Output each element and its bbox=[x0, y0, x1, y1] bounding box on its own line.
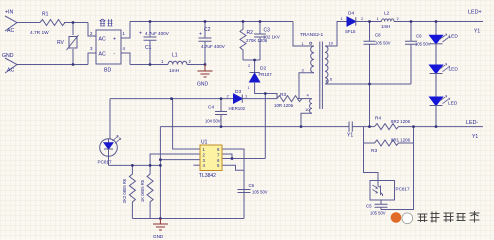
resistor R3b bbox=[364, 140, 414, 146]
U1 body bbox=[200, 145, 222, 171]
svg-text:105 50V: 105 50V bbox=[370, 211, 386, 216]
resistor R6 bbox=[129, 165, 135, 218]
svg-text:LED-: LED- bbox=[466, 120, 478, 126]
wire snubber bottom bbox=[243, 60, 260, 73]
U1 pin7 wire bbox=[222, 154, 232, 159]
svg-text:LED: LED bbox=[449, 34, 459, 40]
svg-text:105 50V: 105 50V bbox=[252, 190, 268, 195]
resistor R3 bbox=[277, 96, 302, 102]
junction (243,21.5) bbox=[242, 20, 245, 23]
svg-text:C6: C6 bbox=[249, 183, 255, 188]
junction (221,98.6) bbox=[220, 97, 223, 100]
U1 pin3 wire bbox=[160, 159, 200, 161]
junction (150,21.5) bbox=[149, 20, 152, 23]
wire bbox=[121, 22, 130, 65]
svg-text:R3: R3 bbox=[371, 148, 377, 154]
svg-text:R2: R2 bbox=[247, 30, 254, 36]
svg-text:Y1: Y1 bbox=[472, 134, 478, 140]
junction (369.5,21.5) bbox=[368, 20, 371, 23]
capacitor C4 bbox=[215, 99, 227, 127]
svg-text:-: - bbox=[114, 51, 116, 57]
svg-text:PC817: PC817 bbox=[98, 160, 112, 165]
svg-text:HER102: HER102 bbox=[229, 106, 246, 111]
svg-text:4.7uF 400V: 4.7uF 400V bbox=[145, 31, 170, 36]
svg-text:D4: D4 bbox=[348, 11, 354, 17]
svg-text:10R 1206: 10R 1206 bbox=[274, 103, 294, 108]
junction (205,64.5) bbox=[204, 63, 207, 66]
svg-text:AC: AC bbox=[7, 28, 14, 34]
junction (413.5,126.6) bbox=[412, 125, 415, 128]
port +IN bbox=[5, 16, 17, 31]
wire vcc vertical bbox=[264, 94, 266, 159]
bottom rail left bbox=[132, 218, 244, 220]
resistor R5 bbox=[147, 165, 153, 218]
gnd bus vertical bbox=[159, 127, 161, 219]
svg-text:RV: RV bbox=[57, 40, 65, 46]
transformer primary winding bbox=[293, 45, 314, 47]
svg-text:L2: L2 bbox=[384, 11, 390, 17]
svg-text:BD: BD bbox=[104, 68, 111, 74]
junction (132.4,165.4) bbox=[131, 164, 134, 167]
svg-text:8R2 1206: 8R2 1206 bbox=[391, 119, 411, 124]
optocoupler PC817 LED side bbox=[109, 99, 111, 139]
U1 pin5 wire bbox=[222, 165, 244, 170]
svg-text:PC817: PC817 bbox=[396, 187, 410, 192]
svg-text:105 50V: 105 50V bbox=[375, 41, 391, 46]
svg-text:LED+: LED+ bbox=[468, 10, 482, 16]
svg-text:4.7R 1W: 4.7R 1W bbox=[30, 30, 49, 36]
svg-text:D2: D2 bbox=[260, 66, 266, 72]
svg-text:1mH: 1mH bbox=[381, 24, 390, 29]
svg-text:AC: AC bbox=[99, 52, 106, 58]
junction (205,21.5) bbox=[204, 20, 207, 23]
polarity dots on transformer bbox=[310, 42, 312, 44]
junction (369.5,126.6) bbox=[368, 125, 371, 128]
transformer aux winding bbox=[310, 99, 312, 114]
svg-text:Y1: Y1 bbox=[474, 29, 480, 35]
svg-text:TL3842: TL3842 bbox=[199, 173, 216, 179]
junction (411,21.5) bbox=[410, 20, 413, 23]
resistor R2 bbox=[240, 22, 246, 61]
varistor RV bbox=[67, 23, 79, 65]
svg-text:LED: LED bbox=[448, 101, 458, 107]
svg-text:SFL5: SFL5 bbox=[345, 29, 356, 34]
svg-text:LED: LED bbox=[449, 67, 459, 73]
svg-text:TRANS2-1: TRANS2-1 bbox=[300, 32, 324, 38]
svg-text:+: + bbox=[139, 31, 142, 37]
secondary gnd rail bbox=[340, 83, 411, 85]
U1 pin1 wire bbox=[173, 99, 200, 149]
svg-text:+IN: +IN bbox=[5, 10, 13, 16]
wire bbox=[64, 23, 96, 37]
capacitor C5 bbox=[375, 204, 388, 209]
svg-text:+: + bbox=[113, 37, 116, 43]
svg-text:2K2 0805 R6: 2K2 0805 R6 bbox=[122, 178, 127, 203]
capacitor C3 bbox=[254, 22, 266, 61]
svg-text:R4: R4 bbox=[375, 116, 381, 122]
junction (254.6,60) bbox=[253, 59, 256, 62]
diode D3 HER102 bbox=[234, 94, 243, 103]
opto collector vertical bbox=[364, 127, 379, 181]
svg-text:+: + bbox=[199, 32, 202, 38]
port GND bbox=[5, 58, 17, 73]
transformer T1 core bbox=[320, 42, 323, 110]
svg-text:1: 1 bbox=[248, 86, 250, 90]
capacitor C7 under U1 bbox=[238, 190, 251, 193]
svg-text:R3: R3 bbox=[280, 92, 286, 98]
svg-text:R1: R1 bbox=[42, 12, 49, 18]
wire bbox=[17, 53, 96, 65]
svg-text:104 50V: 104 50V bbox=[205, 119, 221, 124]
junction (369.5,84) bbox=[368, 83, 371, 86]
svg-text:Y1: Y1 bbox=[347, 133, 353, 139]
junction (260,21.5) bbox=[259, 20, 262, 23]
svg-text:C6: C6 bbox=[416, 34, 422, 39]
junction (232,158.5) bbox=[231, 157, 234, 160]
secondary left vertical bbox=[369, 84, 371, 127]
opto rail bbox=[109, 164, 161, 166]
optocoupler PC817 transistor side bbox=[370, 181, 395, 201]
junction (160.4,165.4) bbox=[159, 164, 162, 167]
bridge rectifier BD bbox=[96, 30, 121, 64]
capacitor Y1 bbox=[160, 122, 374, 132]
svg-text:102 1KV: 102 1KV bbox=[263, 35, 280, 40]
U1 pin8 wire bbox=[222, 149, 244, 219]
svg-text:U1: U1 bbox=[201, 140, 208, 146]
watermark text 硬件笔记本 (drawn strokes) bbox=[418, 211, 480, 223]
top secondary rail bbox=[370, 21, 484, 23]
right vertical bbox=[381, 127, 414, 210]
svg-text:C2: C2 bbox=[204, 27, 211, 33]
inductor L1 bbox=[168, 61, 187, 64]
junction (265.3,93.5) bbox=[264, 92, 267, 95]
svg-text:AC: AC bbox=[7, 68, 14, 74]
svg-text:L1: L1 bbox=[172, 53, 178, 59]
diode D2 FR107 bbox=[250, 72, 260, 74]
junction (171.5,98.6) bbox=[170, 97, 173, 100]
svg-text:1mH: 1mH bbox=[169, 68, 180, 74]
bridge name 全桥 (CJK drawn as strokes) bbox=[100, 19, 113, 26]
LED D6 bbox=[430, 65, 443, 74]
wire bbox=[255, 82, 277, 99]
transformer secondary winding bbox=[325, 46, 328, 84]
junction (436,126.6) bbox=[435, 125, 438, 128]
svg-text:105 50V: 105 50V bbox=[415, 42, 431, 47]
wire bbox=[297, 98, 310, 100]
watermark icon bbox=[391, 212, 402, 223]
svg-text:C8: C8 bbox=[375, 33, 381, 38]
LED- rail bbox=[414, 126, 484, 128]
resistor R1 bbox=[40, 20, 65, 26]
svg-text:D3: D3 bbox=[235, 89, 241, 95]
junction (150,64.5) bbox=[149, 63, 152, 66]
junction (301,126.6) bbox=[300, 125, 303, 128]
svg-text:1K 0805 R5: 1K 0805 R5 bbox=[140, 179, 145, 202]
svg-text:GND: GND bbox=[153, 234, 164, 239]
svg-text:GND: GND bbox=[2, 53, 14, 59]
bottom rail bbox=[130, 64, 205, 66]
ground GND1 bbox=[198, 65, 213, 78]
junction (221,126.6) bbox=[220, 125, 223, 128]
capacitor C8 bbox=[364, 22, 376, 85]
wire feedback line bbox=[110, 98, 234, 100]
LED D5 bbox=[430, 35, 443, 44]
ground GND2 bbox=[153, 219, 168, 231]
junction (160.4,159.6) bbox=[159, 158, 162, 161]
inductor L2 bbox=[382, 19, 394, 22]
svg-text:10: 10 bbox=[329, 41, 334, 46]
diode D4 SFL5 bbox=[347, 17, 356, 26]
LED string wire bbox=[435, 22, 437, 127]
resistor R4 bbox=[375, 124, 414, 130]
svg-text:C1: C1 bbox=[145, 45, 152, 51]
svg-text:8R1 1206: 8R1 1206 bbox=[391, 138, 411, 143]
junction (436,21.5) bbox=[435, 20, 438, 23]
top rail bbox=[130, 22, 314, 47]
junction (160.4,218.5) bbox=[159, 217, 162, 220]
capacitor C1 bbox=[144, 22, 157, 65]
svg-text:GND: GND bbox=[197, 82, 209, 88]
svg-text:C4: C4 bbox=[208, 105, 214, 111]
svg-text:FR107: FR107 bbox=[259, 72, 273, 77]
U1 pin2 wire bbox=[150, 154, 200, 165]
svg-text:10: 10 bbox=[305, 107, 310, 112]
svg-text:4.7uF 400V: 4.7uF 400V bbox=[201, 44, 226, 49]
capacitor C6 bbox=[405, 22, 417, 85]
svg-text:AC: AC bbox=[99, 37, 106, 43]
junction (73,64.5) bbox=[72, 63, 75, 66]
junction (73,22.5) bbox=[72, 21, 75, 24]
U1 pin6 wire bbox=[222, 158, 265, 160]
svg-text:C3: C3 bbox=[264, 28, 271, 34]
wire bbox=[17, 22, 40, 24]
capacitor C2 bbox=[199, 22, 212, 65]
svg-text:2: 2 bbox=[248, 64, 250, 68]
bridge labels bbox=[99, 37, 117, 58]
junction (150.1,165.4) bbox=[149, 164, 152, 167]
U1 pin4 stub bbox=[194, 164, 201, 166]
LED D7 bbox=[430, 97, 443, 106]
svg-text:C5: C5 bbox=[366, 204, 372, 209]
